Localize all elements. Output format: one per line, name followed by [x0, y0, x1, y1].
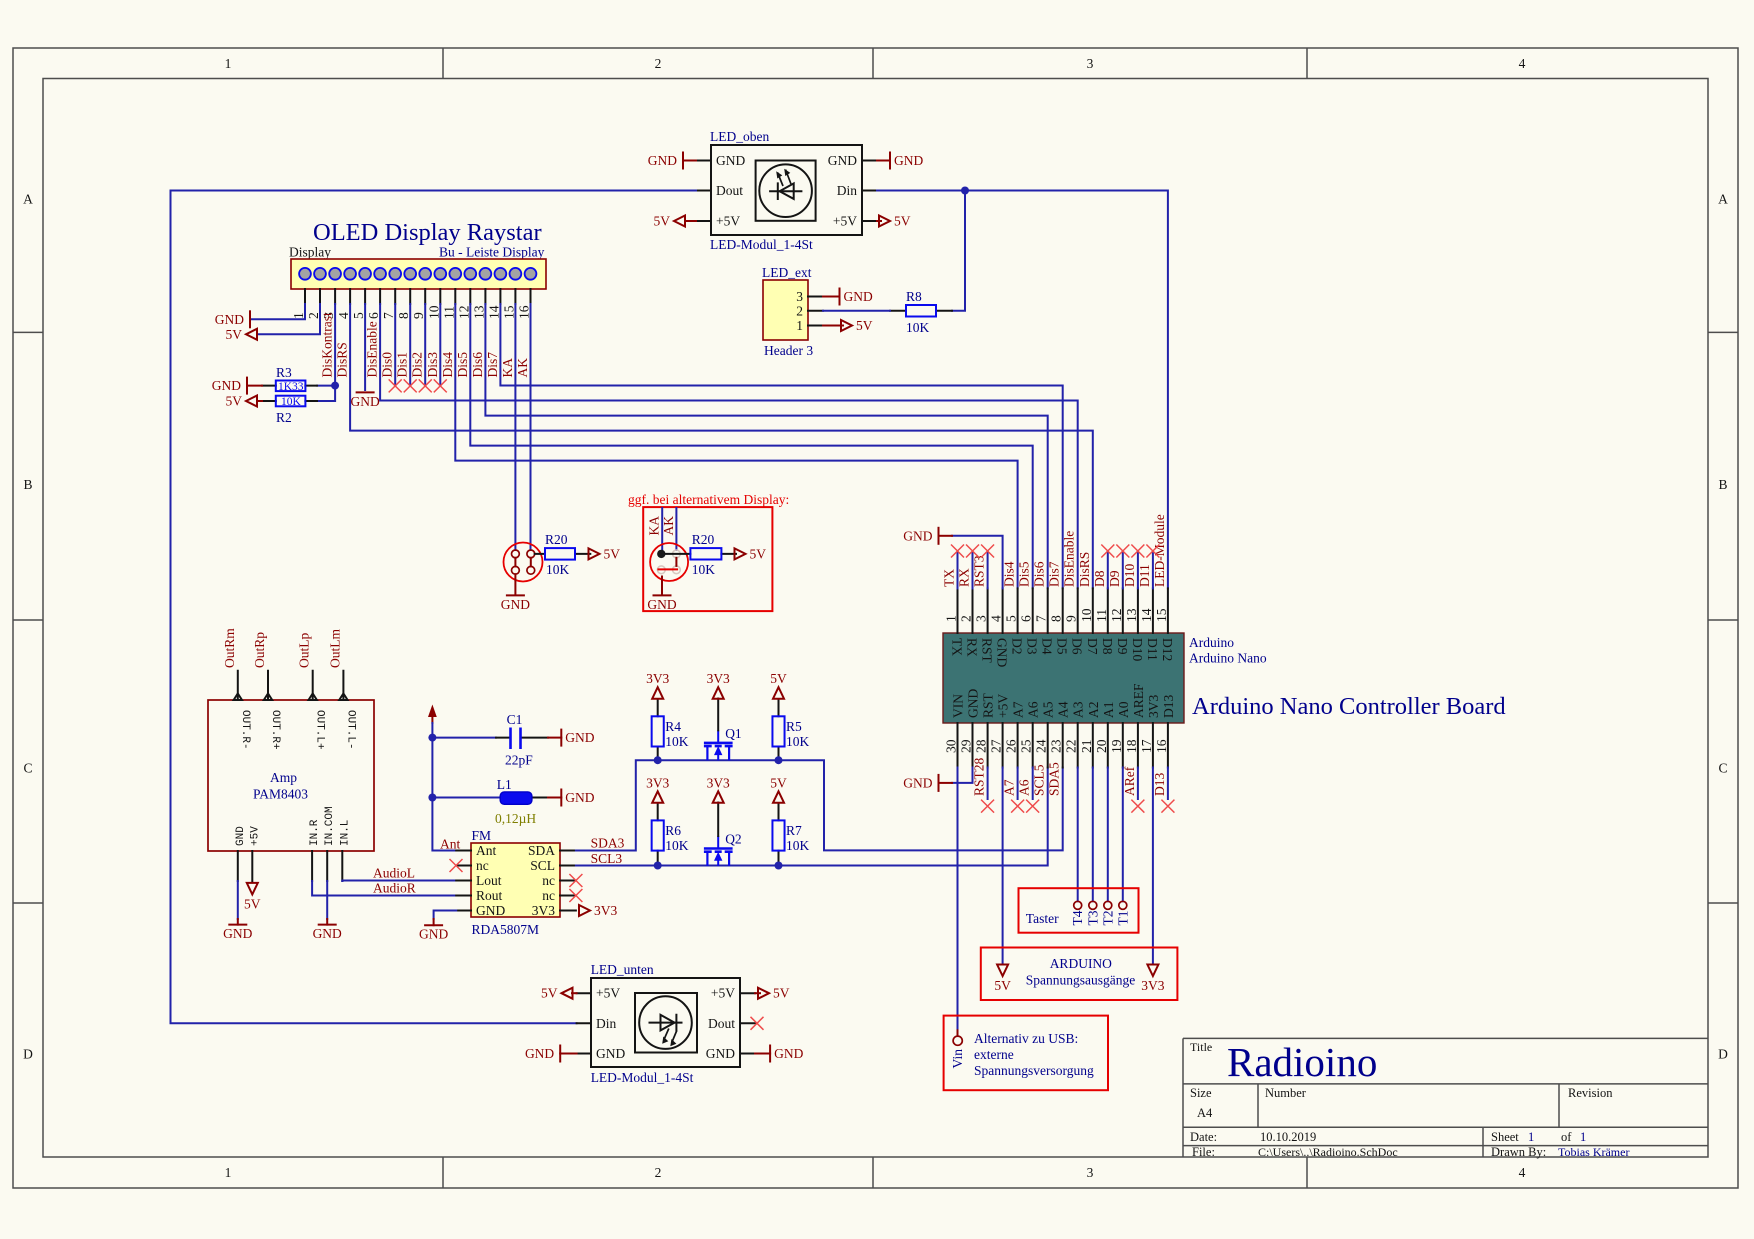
- svg-text:0,12µH: 0,12µH: [495, 811, 536, 826]
- ground GND below Amp: [223, 925, 252, 942]
- wire DisEnable Display pin6 to Arduino pin9: [380, 304, 1078, 588]
- svg-text:GND: GND: [215, 312, 244, 327]
- svg-text:5: 5: [351, 312, 366, 319]
- svg-text:IN.R: IN.R: [309, 819, 321, 846]
- svg-text:10K: 10K: [665, 838, 689, 853]
- connector Display 16-pin header body: [291, 259, 546, 289]
- svg-text:19: 19: [1109, 739, 1124, 753]
- wire 5V to LED_oben +5V right: [877, 220, 881, 222]
- ground GND at R3: [212, 378, 247, 394]
- svg-text:Revision: Revision: [1568, 1086, 1613, 1100]
- svg-text:+5V: +5V: [716, 214, 740, 229]
- svg-text:4: 4: [336, 312, 351, 319]
- wire Display pin9 stub: [424, 304, 426, 386]
- svg-text:SDA3: SDA3: [591, 836, 625, 851]
- svg-text:D: D: [23, 1047, 33, 1062]
- svg-text:25: 25: [1019, 739, 1034, 753]
- Taster pad T4: [1074, 901, 1082, 909]
- ground GND at LED_ext pin3: [840, 289, 873, 305]
- resistor R2 value 10K: [262, 396, 317, 425]
- junction R7/SCL: [775, 862, 783, 870]
- svg-text:D7: D7: [1085, 638, 1100, 655]
- svg-text:AK: AK: [661, 516, 676, 536]
- wire Arduino pin20 to Taster: [1107, 768, 1109, 902]
- ground GND in alt box: [647, 595, 676, 612]
- svg-text:5: 5: [1004, 615, 1019, 622]
- svg-text:GND: GND: [525, 1046, 554, 1061]
- power 5V right of LED_unten: [758, 986, 790, 1001]
- svg-text:4: 4: [1519, 1165, 1526, 1180]
- svg-text:GND: GND: [647, 597, 676, 612]
- svg-text:DisKontrast: DisKontrast: [320, 312, 335, 377]
- svg-text:OLED Display Raystar: OLED Display Raystar: [313, 219, 542, 246]
- svg-text:18: 18: [1124, 739, 1139, 753]
- svg-text:nc: nc: [476, 858, 489, 873]
- svg-text:LED-Modul_1-4St: LED-Modul_1-4St: [710, 237, 813, 252]
- svg-text:GND: GND: [903, 528, 932, 543]
- svg-text:Arduino Nano Controller Board: Arduino Nano Controller Board: [1192, 693, 1506, 720]
- svg-text:GND: GND: [476, 903, 505, 918]
- transistor Q1 MOSFET level shifter: [704, 726, 742, 760]
- svg-text:3V3: 3V3: [646, 671, 669, 686]
- svg-text:9: 9: [411, 312, 426, 319]
- junction R4/SDA: [654, 756, 662, 764]
- svg-text:RST28: RST28: [972, 757, 987, 796]
- Display header pin stubs and numbers: [291, 289, 532, 319]
- svg-text:A6: A6: [1026, 701, 1041, 718]
- FM pins: [456, 843, 576, 918]
- Taster pad T1: [1119, 901, 1127, 909]
- svg-text:D10: D10: [1122, 564, 1137, 587]
- no-connect X at Arduino bottom pin 16: [1161, 800, 1174, 813]
- svg-text:GND: GND: [565, 730, 594, 745]
- svg-text:Dis7: Dis7: [1047, 561, 1062, 587]
- svg-text:RST: RST: [981, 692, 996, 718]
- resistor R6: [652, 803, 689, 864]
- wire Dis4 Display pin11 to Arduino pin5: [455, 304, 1017, 588]
- svg-text:D11: D11: [1137, 564, 1152, 587]
- svg-text:15: 15: [1154, 608, 1169, 622]
- wire Q2 gate to 3V3: [717, 803, 719, 837]
- svg-text:10K: 10K: [906, 320, 930, 335]
- power 5V output: [994, 965, 1011, 994]
- svg-text:5V: 5V: [654, 214, 671, 229]
- svg-text:+5V: +5V: [596, 986, 620, 1001]
- ground GND right of LED_oben: [890, 153, 923, 169]
- svg-text:GND: GND: [419, 927, 448, 942]
- svg-text:13: 13: [1124, 608, 1139, 622]
- wire Display pin7 stub: [394, 304, 396, 386]
- svg-text:Vin: Vin: [950, 1049, 965, 1069]
- no-connect X at Display pin7: [389, 379, 402, 392]
- svg-text:Dout: Dout: [716, 183, 743, 198]
- svg-text:LED_ext: LED_ext: [762, 265, 812, 280]
- svg-text:SDA5: SDA5: [1047, 762, 1062, 796]
- svg-text:OUT.L+: OUT.L+: [314, 710, 326, 750]
- svg-text:D13: D13: [1152, 773, 1167, 796]
- svg-text:14: 14: [486, 305, 501, 319]
- svg-text:Display: Display: [289, 245, 331, 260]
- svg-text:TX: TX: [942, 569, 957, 587]
- svg-text:5V: 5V: [894, 214, 911, 229]
- svg-text:OUT.L-: OUT.L-: [344, 710, 356, 750]
- svg-text:3: 3: [974, 615, 989, 622]
- no-connect X at LED_unten Dout: [751, 1017, 764, 1030]
- svg-text:10K: 10K: [786, 838, 810, 853]
- svg-text:AREF: AREF: [1131, 683, 1146, 718]
- Taster pad T2: [1104, 901, 1112, 909]
- svg-text:IN.COM: IN.COM: [324, 806, 336, 846]
- svg-text:D4: D4: [1040, 638, 1055, 655]
- power 5V left of LED_unten: [541, 986, 573, 1001]
- no-connect X at Arduino pin1: [951, 545, 964, 558]
- ground GND at FM: [419, 925, 448, 942]
- svg-text:GND: GND: [716, 153, 745, 168]
- Alternativ zu USB box: [944, 1016, 1108, 1091]
- wire Amp IN.COM to GND: [326, 881, 328, 919]
- svg-text:RST3: RST3: [972, 555, 987, 587]
- svg-text:LED_unten: LED_unten: [591, 962, 654, 977]
- svg-text:27: 27: [989, 739, 1004, 753]
- Taster box: [1019, 888, 1139, 933]
- svg-text:D10: D10: [1130, 638, 1145, 661]
- svg-text:PAM8403: PAM8403: [253, 787, 308, 802]
- svg-text:22: 22: [1064, 740, 1079, 754]
- svg-text:LED-Modul_1-4St: LED-Modul_1-4St: [591, 1070, 694, 1085]
- svg-text:ARef: ARef: [1122, 766, 1137, 796]
- wire Arduino pin19 to Taster: [1122, 768, 1124, 902]
- svg-text:Q1: Q1: [725, 726, 742, 741]
- ground GND left of LED_unten: [525, 1046, 560, 1062]
- no-connect X at FM nc right 1: [569, 874, 582, 887]
- svg-text:23: 23: [1049, 739, 1064, 753]
- svg-text:DisEnable: DisEnable: [1062, 531, 1077, 587]
- power 3V3 at Q2 gate: [707, 775, 730, 803]
- resistor R8: [890, 289, 952, 335]
- svg-text:D: D: [1718, 1047, 1728, 1062]
- no-connect X at Arduino bottom pin 18: [1131, 800, 1144, 813]
- svg-text:3V3: 3V3: [707, 775, 730, 790]
- svg-text:C:\Users\..\Radioino.SchDoc: C:\Users\..\Radioino.SchDoc: [1258, 1145, 1398, 1159]
- wire AK Display pin16 to LED connector: [530, 304, 532, 550]
- no-connect X at Display pin8: [404, 379, 417, 392]
- connector LED (KA/AK) body: [504, 543, 543, 582]
- svg-text:Tobias Krämer: Tobias Krämer: [1558, 1145, 1629, 1159]
- svg-text:R6: R6: [665, 823, 681, 838]
- svg-text:LED_oben: LED_oben: [710, 129, 769, 144]
- svg-text:R3: R3: [276, 365, 292, 380]
- svg-text:Dis4: Dis4: [1002, 561, 1017, 587]
- svg-text:SCL5: SCL5: [1032, 764, 1047, 796]
- svg-text:1: 1: [1528, 1130, 1534, 1144]
- ground GND at Arduino pin29: [903, 775, 938, 791]
- wire Arduino bottom pin stub: [987, 768, 989, 800]
- svg-text:GND: GND: [313, 926, 342, 941]
- svg-text:L1: L1: [497, 777, 512, 792]
- svg-text:5V: 5V: [773, 986, 790, 1001]
- connector LED_ext Header 3 body: [763, 280, 808, 340]
- svg-text:GND: GND: [565, 790, 594, 805]
- svg-text:+5V: +5V: [249, 826, 261, 846]
- no-connect X at Arduino pin11: [1101, 545, 1114, 558]
- svg-text:5V: 5V: [994, 978, 1011, 993]
- svg-text:Spannungsausgänge: Spannungsausgänge: [1026, 973, 1135, 988]
- wire Dis7 Display pin14 to Arduino pin8: [500, 304, 1062, 588]
- column tick marks: [443, 48, 1307, 1188]
- power 5V at R20: [589, 546, 621, 561]
- wire Arduino pin2 stub: [972, 551, 974, 588]
- power 5V at Display pin2: [226, 327, 258, 342]
- resistor R7: [772, 803, 809, 864]
- svg-text:3V3: 3V3: [646, 775, 669, 790]
- wire Arduino pin27 5V output: [1002, 768, 1004, 963]
- svg-text:Alternativ zu USB:: Alternativ zu USB:: [974, 1031, 1078, 1046]
- wire KA Display pin15 to LED connector: [514, 304, 516, 550]
- svg-text:1: 1: [225, 56, 232, 71]
- wire Arduino pin13 stub: [1137, 551, 1139, 588]
- svg-text:1: 1: [944, 615, 959, 622]
- svg-text:Dis4: Dis4: [440, 352, 455, 378]
- svg-text:A5: A5: [1041, 701, 1056, 718]
- svg-text:RST: RST: [980, 638, 995, 664]
- wire Arduino pin11 stub: [1107, 551, 1109, 588]
- svg-text:SDA: SDA: [528, 843, 555, 858]
- svg-text:C: C: [23, 761, 32, 776]
- svg-text:3: 3: [1087, 1165, 1094, 1180]
- wire Ant vertical: [432, 723, 456, 851]
- wire SCL3 FM SCL to Arduino SCL5: [576, 768, 1048, 866]
- svg-text:2: 2: [959, 615, 974, 622]
- svg-text:26: 26: [1004, 739, 1019, 753]
- resistor R5: [772, 699, 809, 760]
- svg-text:12: 12: [456, 306, 471, 320]
- svg-text:GND: GND: [966, 689, 981, 718]
- svg-text:Dis2: Dis2: [410, 352, 425, 378]
- svg-text:5V: 5V: [856, 318, 873, 333]
- svg-text:AK: AK: [515, 358, 530, 378]
- wire Arduino pin1 stub: [957, 551, 959, 588]
- ground GND left of LED_oben: [648, 153, 683, 169]
- svg-text:AudioR: AudioR: [373, 881, 416, 896]
- svg-text:A7: A7: [1011, 701, 1026, 718]
- svg-text:D2: D2: [1010, 638, 1025, 655]
- Arduino U? Arduino Nano body: [943, 633, 1184, 723]
- svg-text:7: 7: [381, 312, 396, 319]
- svg-text:17: 17: [1139, 739, 1154, 753]
- svg-text:8: 8: [1049, 615, 1064, 622]
- resistor R20 (alt): [666, 532, 737, 577]
- svg-text:Ant: Ant: [476, 843, 496, 858]
- svg-text:D8: D8: [1100, 638, 1115, 655]
- svg-text:KA: KA: [647, 516, 662, 536]
- svg-text:GND: GND: [596, 1046, 625, 1061]
- svg-text:10.10.2019: 10.10.2019: [1260, 1130, 1316, 1144]
- svg-text:OutLm: OutLm: [327, 629, 342, 668]
- svg-text:GND: GND: [903, 775, 932, 790]
- wire LED_ext pin3 to GND: [823, 296, 840, 298]
- ground GND at L1: [561, 790, 594, 806]
- wire L1 to GND: [548, 797, 561, 799]
- svg-text:14: 14: [1139, 608, 1154, 622]
- svg-text:Dis5: Dis5: [1017, 561, 1032, 587]
- svg-text:T3: T3: [1085, 910, 1100, 925]
- svg-text:OUT.R-: OUT.R-: [239, 710, 251, 750]
- wire Arduino pin14 stub: [1152, 551, 1154, 588]
- Taster pad T3: [1089, 901, 1097, 909]
- svg-text:TX: TX: [950, 638, 965, 656]
- svg-text:VIN: VIN: [951, 694, 966, 718]
- svg-text:D3: D3: [1025, 638, 1040, 655]
- svg-text:Radioino: Radioino: [1227, 1039, 1377, 1085]
- power 3V3 at Q1 gate: [707, 671, 730, 699]
- no-connect X at Arduino bottom pin 25: [1026, 800, 1039, 813]
- svg-text:A7: A7: [1002, 779, 1017, 796]
- ground GND at Display pin1: [215, 311, 250, 327]
- wire GND to LED_unten right: [755, 1053, 770, 1055]
- svg-text:Bu - Leiste Display: Bu - Leiste Display: [439, 245, 545, 260]
- wire DisRS Display pin4 to Arduino pin10: [350, 304, 1093, 588]
- wire R8 to Din node: [952, 191, 965, 311]
- svg-text:GND: GND: [648, 153, 677, 168]
- svg-text:6: 6: [366, 312, 381, 319]
- svg-text:R20: R20: [692, 532, 715, 547]
- svg-text:Sheet: Sheet: [1491, 1130, 1519, 1144]
- no-connect X at Arduino bottom pin 28: [981, 800, 994, 813]
- no-connect X at Arduino pin14: [1146, 545, 1159, 558]
- svg-text:GND: GND: [212, 378, 241, 393]
- svg-text:2: 2: [655, 56, 662, 71]
- svg-text:3V3: 3V3: [532, 903, 555, 918]
- wire SDA3 FM SDA to Arduino SDA5: [576, 760, 1063, 850]
- wire DisKontrast Display pin3 to R3/R2: [317, 304, 335, 401]
- svg-text:SCL3: SCL3: [591, 851, 623, 866]
- svg-text:10: 10: [426, 305, 441, 319]
- power 5V in alt box: [735, 546, 767, 561]
- svg-text:Arduino Nano: Arduino Nano: [1189, 651, 1267, 666]
- svg-text:2: 2: [796, 304, 803, 319]
- svg-text:Din: Din: [596, 1016, 617, 1031]
- svg-text:DisRS: DisRS: [1077, 552, 1092, 587]
- LED_oben pins: [696, 153, 877, 229]
- svg-text:20: 20: [1094, 739, 1109, 753]
- wire Dout of LED_oben to Din of LED_unten: [171, 191, 697, 1024]
- svg-text:D9: D9: [1107, 570, 1122, 587]
- svg-text:4: 4: [989, 615, 1004, 622]
- svg-text:B: B: [1718, 477, 1727, 492]
- power 5V at R7: [770, 775, 787, 803]
- no-connect X at FM nc left: [450, 859, 463, 872]
- power 5V at R5: [770, 671, 787, 699]
- alternative display option box: [643, 507, 772, 611]
- svg-text:Taster: Taster: [1026, 911, 1059, 926]
- wire Arduino bottom pin stub: [1017, 768, 1019, 800]
- svg-text:15: 15: [501, 305, 516, 319]
- LED_unten pins: [577, 986, 755, 1061]
- svg-text:C1: C1: [507, 712, 523, 727]
- wire Display pin1 to GND: [252, 304, 305, 319]
- svg-text:Dis6: Dis6: [1032, 561, 1047, 587]
- svg-text:nc: nc: [542, 873, 555, 888]
- wire Arduino pin29 GND: [952, 768, 973, 783]
- svg-text:+5V: +5V: [711, 986, 735, 1001]
- svg-text:D12: D12: [1160, 638, 1175, 661]
- svg-text:Drawn By:: Drawn By:: [1491, 1145, 1546, 1159]
- svg-text:Date:: Date:: [1190, 1130, 1217, 1144]
- wire alt connector to GND: [661, 577, 663, 595]
- svg-text:Dis0: Dis0: [380, 352, 395, 378]
- svg-text:A6: A6: [1017, 779, 1032, 796]
- svg-text:10K: 10K: [665, 734, 689, 749]
- svg-text:A4: A4: [1197, 1106, 1213, 1120]
- svg-text:11: 11: [1094, 609, 1109, 622]
- svg-text:R2: R2: [276, 410, 292, 425]
- antenna arrow Ant: [428, 705, 437, 724]
- svg-text:Dis6: Dis6: [470, 352, 485, 378]
- svg-text:D13: D13: [1161, 695, 1176, 718]
- svg-text:RX: RX: [965, 638, 980, 657]
- svg-text:21: 21: [1079, 740, 1094, 754]
- svg-text:AudioL: AudioL: [373, 866, 415, 881]
- svg-text:Ant: Ant: [440, 837, 460, 852]
- svg-text:1: 1: [1580, 1130, 1586, 1144]
- svg-text:3: 3: [796, 289, 803, 304]
- inductor L1 0,12uH: [432, 777, 548, 826]
- svg-text:Dout: Dout: [708, 1016, 735, 1031]
- no-connect X at Display pin9: [419, 379, 432, 392]
- svg-text:Rout: Rout: [476, 888, 503, 903]
- svg-text:T4: T4: [1070, 910, 1085, 925]
- svg-text:5V: 5V: [226, 327, 243, 342]
- svg-text:1: 1: [796, 318, 803, 333]
- svg-text:8: 8: [396, 312, 411, 319]
- junction R6/SCL: [654, 862, 662, 870]
- svg-text:A1: A1: [1101, 702, 1116, 719]
- svg-text:T1: T1: [1115, 911, 1130, 926]
- resistor R4: [652, 699, 689, 760]
- svg-text:29: 29: [959, 739, 974, 753]
- svg-text:externe: externe: [974, 1047, 1014, 1062]
- svg-text:C: C: [1718, 761, 1727, 776]
- junction Ant / L1: [428, 794, 436, 802]
- svg-text:R8: R8: [906, 289, 922, 304]
- svg-text:GND: GND: [774, 1046, 803, 1061]
- no-connect X at Arduino pin13: [1131, 545, 1144, 558]
- svg-text:3V3: 3V3: [1146, 695, 1161, 718]
- power 5V at LED_ext pin1: [841, 318, 873, 333]
- wire Display pin5 to GND: [364, 304, 366, 390]
- power 5V at R2: [226, 394, 258, 409]
- junction DisKontrast node: [331, 382, 339, 390]
- svg-text:GND: GND: [894, 153, 923, 168]
- no-connect X at FM nc right 2: [569, 889, 582, 902]
- Amp bottom pins: [235, 806, 351, 881]
- wire Arduino pin17 3V3 output: [1152, 768, 1154, 963]
- wire Vin Arduino pin30 to external supply: [957, 768, 959, 1031]
- wire Arduino pin12 stub: [1122, 551, 1124, 588]
- svg-text:16: 16: [517, 305, 532, 319]
- connector LED alt body: [650, 543, 688, 581]
- svg-text:R7: R7: [786, 823, 802, 838]
- svg-text:Arduino: Arduino: [1189, 635, 1234, 650]
- wire GND to LED_oben right: [877, 160, 890, 162]
- svg-text:10K: 10K: [692, 562, 716, 577]
- ground GND right of LED_unten: [770, 1046, 803, 1062]
- svg-text:DisEnable: DisEnable: [365, 321, 380, 377]
- svg-text:22pF: 22pF: [505, 753, 533, 768]
- Vin pad: [953, 1030, 962, 1045]
- svg-text:10K: 10K: [546, 562, 570, 577]
- wire FM GND pin: [434, 911, 457, 920]
